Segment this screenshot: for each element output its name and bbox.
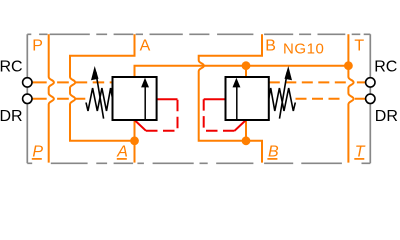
valve outlet line: valve1 top to T line, through valve2 top junction	[135, 66, 349, 77]
svg-text:RC: RC	[0, 58, 23, 75]
valve 2 flow arrow	[233, 78, 241, 120]
junction dot: valve2 bottom / B	[242, 136, 251, 145]
relief valve 1 pilot tap (solid red diagonal)	[135, 120, 147, 131]
relief valve 1 pilot line into valve (red)	[157, 98, 178, 100]
A bottom stub through frame	[134, 141, 136, 163]
relief valve 2 body	[226, 77, 269, 120]
B line: top drop, wrap left, hop over valve-outlet line, to bottom junction, stub down	[199, 34, 262, 162]
port circle DR left	[23, 94, 32, 103]
svg-text:A: A	[116, 144, 128, 161]
svg-text:RC: RC	[374, 58, 397, 75]
DR drain line right (dashed orange)	[296, 98, 366, 100]
relief valve 2 pilot line (dashed red)	[204, 99, 235, 131]
svg-text:T: T	[355, 144, 366, 161]
enclosure frame left edge	[26, 34, 28, 163]
port circle RC right	[366, 78, 375, 87]
valve1 bottom port	[134, 120, 136, 141]
P line (vertical, hops over RC and DR)	[49, 34, 54, 162]
svg-text:NG10: NG10	[283, 40, 324, 57]
svg-text:B: B	[265, 37, 276, 54]
enclosure frame top edge (dashed gray)	[27, 34, 370, 163]
svg-text:A: A	[140, 37, 151, 54]
valve2 top port	[245, 66, 247, 77]
DR drain line left (dashed orange)	[32, 98, 85, 100]
valve2 bottom port	[245, 120, 247, 141]
port circle RC left	[23, 78, 32, 87]
relief valve 1 pilot line (dashed red)	[146, 99, 178, 131]
T line (vertical, hops over RC and DR)	[348, 34, 353, 162]
svg-text:DR: DR	[375, 108, 398, 125]
relief valve 2 pilot tap (solid red diagonal)	[235, 120, 247, 131]
junction dot: valve outlet at T	[344, 61, 353, 70]
relief valve 1 body	[113, 77, 157, 120]
svg-text:T: T	[354, 37, 364, 54]
svg-text:P: P	[32, 37, 43, 54]
RC pilot line right (dashed orange)	[269, 81, 366, 83]
valve 1 flow arrow	[141, 78, 149, 120]
A line: top drop, wrap left around valve 1, to bottom junction	[70, 34, 135, 141]
svg-text:B: B	[268, 144, 279, 161]
valve 1 spring	[86, 88, 113, 111]
svg-text:DR: DR	[0, 108, 23, 125]
valve 1 adjustment arrow	[91, 66, 104, 119]
junction dot: valve2 top	[242, 61, 251, 70]
junction dot: valve1 bottom / A	[130, 136, 139, 145]
RC pilot line left (dashed orange)	[32, 81, 113, 83]
relief valve 2 pilot line into valve (red)	[204, 98, 226, 100]
valve 2 adjustment arrow	[280, 66, 293, 119]
enclosure frame right edge	[369, 34, 371, 163]
port circle DR right	[366, 94, 375, 103]
svg-text:P: P	[32, 144, 43, 161]
valve 2 spring	[269, 88, 296, 111]
enclosure frame bottom edge (dashed gray)	[27, 162, 370, 164]
